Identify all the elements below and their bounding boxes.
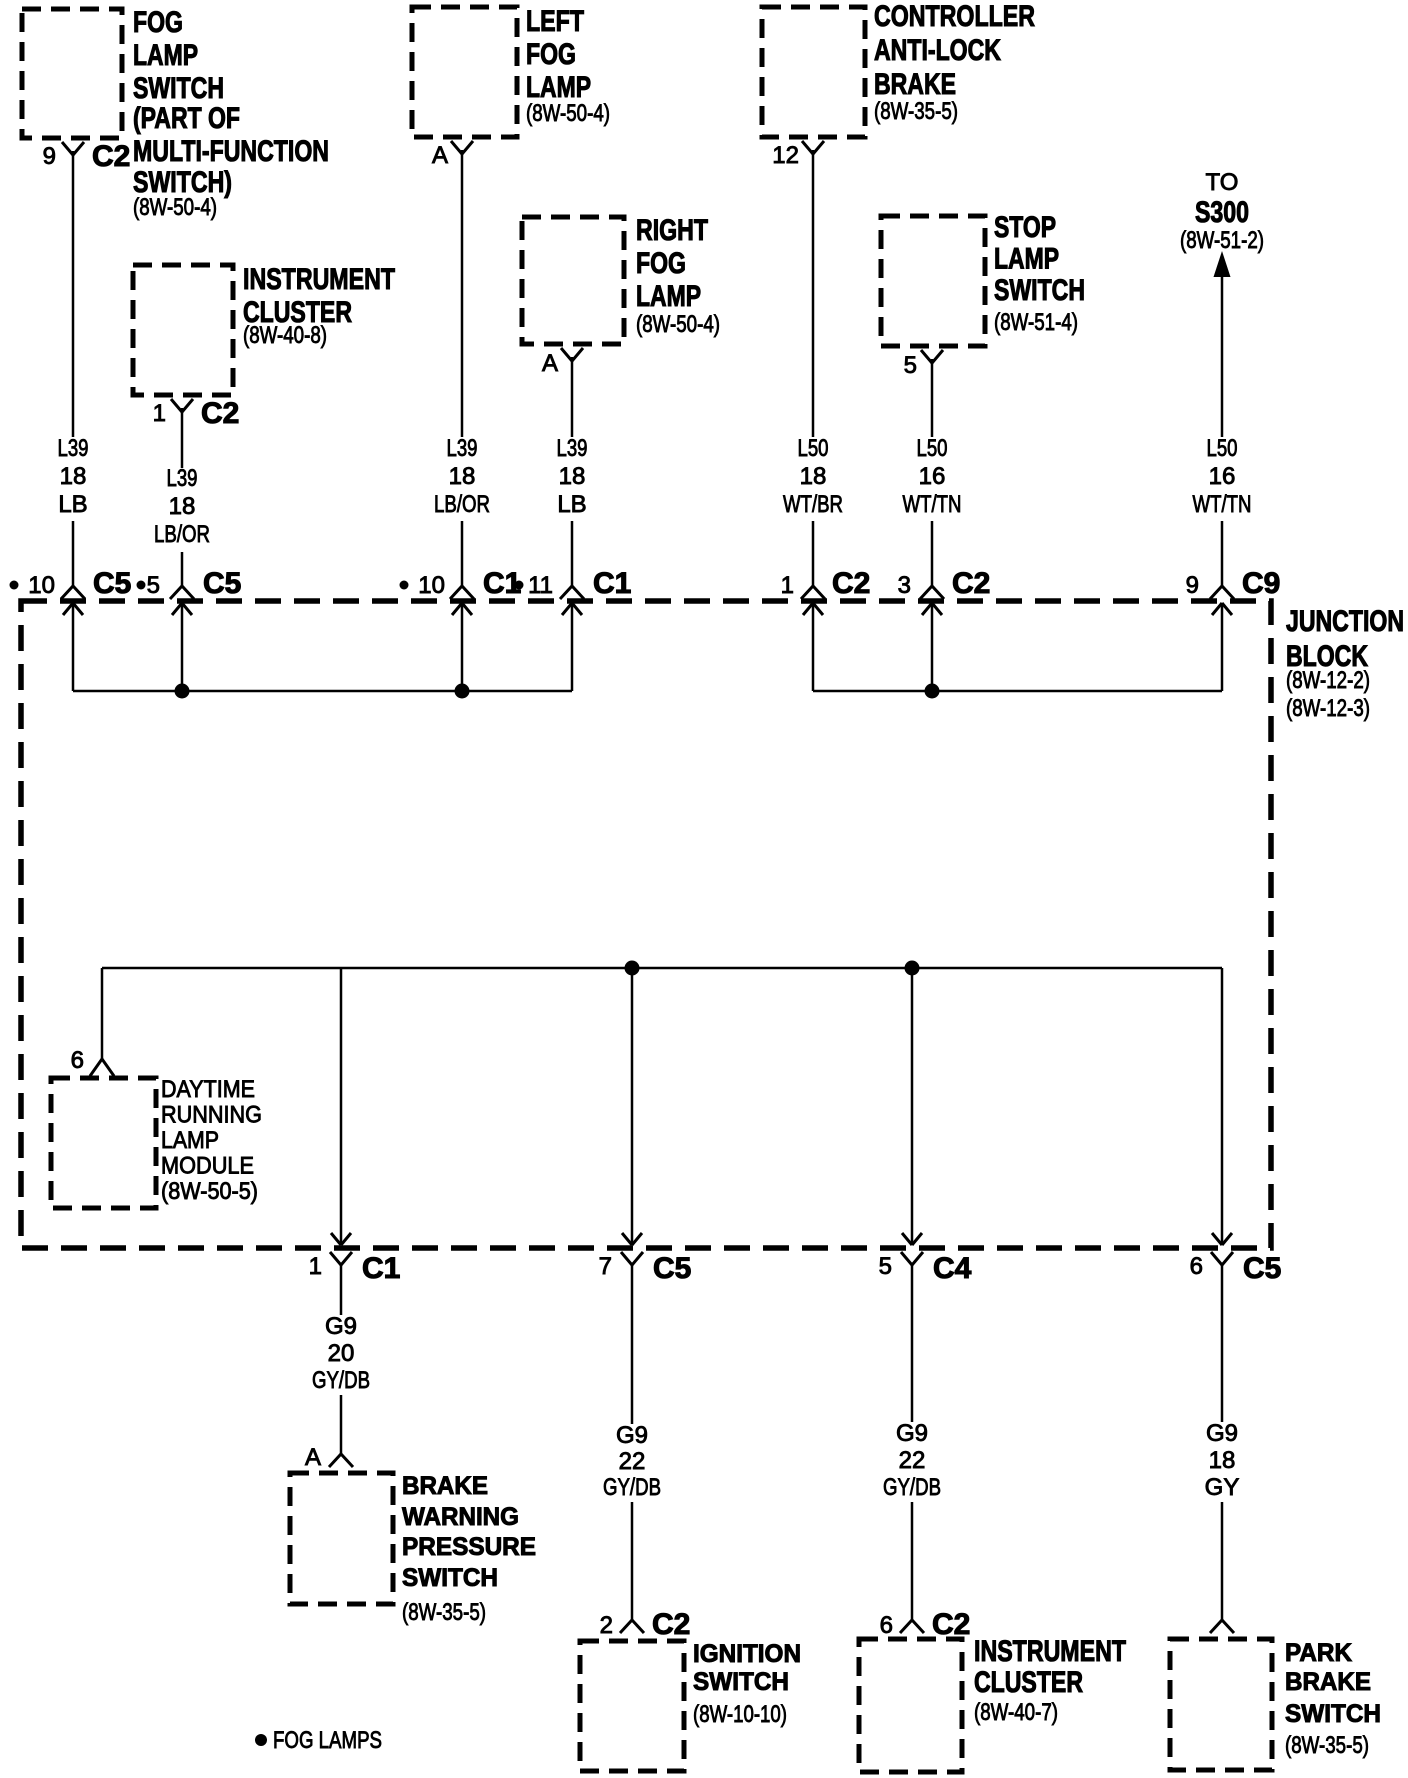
- svg-text:WT/TN: WT/TN: [903, 491, 962, 518]
- junction block cavity 11 connector C1 at x=572: [515, 567, 632, 615]
- svg-text:CLUSTER: CLUSTER: [974, 1666, 1083, 1699]
- junction block bottom cavity 7 connector C5 at x=632: [599, 1233, 692, 1285]
- svg-text:(8W-35-5): (8W-35-5): [1285, 1732, 1369, 1759]
- svg-text:18: 18: [169, 493, 196, 520]
- svg-text:L50: L50: [798, 435, 829, 462]
- instrument cluster (8W-40-7) box: [859, 1639, 962, 1772]
- daytime running lamp module label: [161, 1076, 262, 1205]
- svg-text:TO: TO: [1206, 169, 1239, 196]
- svg-text:LAMP: LAMP: [133, 39, 198, 72]
- svg-text:BRAKE: BRAKE: [1285, 1668, 1371, 1696]
- wire G9 22 GY/DB to instrument cluster: [911, 1265, 914, 1620]
- svg-text:22: 22: [899, 1447, 926, 1474]
- stop lamp switch label: [994, 211, 1085, 336]
- right fog lamp box: [522, 217, 624, 344]
- junction internal left bus: [73, 690, 572, 693]
- svg-text:6: 6: [880, 1612, 893, 1639]
- fog lamp switch pin 9 connector C2: [43, 140, 131, 173]
- svg-text:SWITCH: SWITCH: [133, 72, 224, 105]
- stop lamp switch pin 5: [904, 350, 943, 379]
- svg-text:SWITCH: SWITCH: [1285, 1700, 1381, 1728]
- junction block dashed outline: [21, 601, 1271, 1248]
- svg-text:G9: G9: [896, 1420, 928, 1447]
- junction block cavity 10 connector C5 at x=73: [10, 567, 132, 615]
- svg-text:LB/OR: LB/OR: [154, 521, 210, 548]
- svg-text:FOG LAMPS: FOG LAMPS: [273, 1727, 382, 1754]
- svg-text:3: 3: [898, 572, 911, 599]
- svg-text:IGNITION: IGNITION: [693, 1640, 801, 1668]
- svg-text:16: 16: [1209, 463, 1236, 490]
- right fog lamp pin A: [542, 348, 583, 377]
- junction internal wire drop (S300): [1221, 603, 1224, 691]
- junction internal wire drop (fog switch): [72, 603, 75, 691]
- to S300 label: [1180, 169, 1264, 254]
- svg-text:6: 6: [1190, 1253, 1203, 1280]
- svg-text:LB/OR: LB/OR: [434, 491, 490, 518]
- wire L50 18 WT/BR from controller: [812, 150, 815, 586]
- svg-text:PARK: PARK: [1285, 1639, 1352, 1667]
- svg-text:INSTRUMENT: INSTRUMENT: [974, 1635, 1126, 1668]
- svg-text:JUNCTION: JUNCTION: [1286, 605, 1404, 638]
- wire label L39 18 LB (right fog): [545, 435, 599, 521]
- svg-text:WARNING: WARNING: [402, 1503, 519, 1531]
- junction block cavity 9 connector C9 at x=1222: [1186, 567, 1281, 615]
- junction internal drop to C5 cavity 7: [631, 968, 634, 1245]
- svg-text:(8W-50-4): (8W-50-4): [636, 311, 720, 338]
- svg-text:L50: L50: [917, 435, 948, 462]
- svg-text:(8W-50-4): (8W-50-4): [526, 100, 610, 127]
- svg-text:5: 5: [879, 1253, 892, 1280]
- svg-text:GY/DB: GY/DB: [883, 1474, 941, 1501]
- svg-text:18: 18: [800, 463, 827, 490]
- svg-text:CONTROLLER: CONTROLLER: [874, 0, 1035, 33]
- svg-text:FOG: FOG: [526, 38, 576, 71]
- svg-text:(8W-12-3): (8W-12-3): [1286, 695, 1370, 722]
- svg-text:10: 10: [28, 572, 55, 599]
- svg-text:C1: C1: [593, 567, 631, 600]
- ignition switch pin 2 connector C2: [600, 1608, 691, 1641]
- ignition switch label: [693, 1640, 801, 1728]
- svg-text:C2: C2: [201, 397, 239, 430]
- svg-text:FOG: FOG: [636, 247, 686, 280]
- svg-text:WT/BR: WT/BR: [783, 491, 843, 518]
- junction block bottom cavity 6 connector C5 at x=1222: [1190, 1233, 1282, 1285]
- svg-text:C2: C2: [92, 140, 130, 173]
- svg-text:BRAKE: BRAKE: [402, 1472, 488, 1500]
- svg-text:L39: L39: [167, 465, 198, 492]
- svg-text:LAMP: LAMP: [161, 1127, 219, 1154]
- svg-text:L39: L39: [557, 435, 588, 462]
- daytime running lamp module box: [51, 1078, 156, 1208]
- instrument cluster label: [243, 263, 395, 349]
- junction internal wire drop (controller): [812, 603, 815, 691]
- junction node dot (left fog/left bus): [455, 684, 470, 699]
- junction internal right bus: [813, 690, 1222, 693]
- svg-text:L39: L39: [447, 435, 478, 462]
- fog lamps legend: [255, 1727, 382, 1754]
- svg-text:G9: G9: [616, 1422, 648, 1449]
- svg-text:5: 5: [147, 572, 160, 599]
- junction block cavity 10 connector C1 at x=462: [400, 567, 522, 615]
- svg-text:6: 6: [71, 1047, 84, 1074]
- wire label G9 22 GY/DB (cluster): [881, 1420, 943, 1502]
- svg-text:FOG: FOG: [133, 6, 183, 39]
- junction internal wire drop (cluster): [181, 603, 184, 691]
- wire L50 16 WT/TN from stop lamp switch: [931, 359, 934, 586]
- svg-text:11: 11: [528, 572, 553, 599]
- svg-text:C5: C5: [93, 567, 131, 600]
- svg-text:18: 18: [1209, 1447, 1236, 1474]
- svg-text:RIGHT: RIGHT: [636, 214, 708, 247]
- fog lamp switch box: [22, 9, 122, 138]
- S300 arrow head: [1214, 251, 1231, 277]
- junction internal drop to C1 cavity 1: [340, 968, 343, 1245]
- svg-text:STOP: STOP: [994, 211, 1056, 244]
- svg-text:L50: L50: [1207, 435, 1238, 462]
- wire label L39 18 LB (left): [46, 435, 100, 521]
- wire label L50 16 WT/TN (stop): [899, 435, 965, 521]
- svg-text:DAYTIME: DAYTIME: [161, 1076, 255, 1103]
- instrument cluster pin 1 connector C2: [153, 397, 240, 430]
- svg-text:MULTI-FUNCTION: MULTI-FUNCTION: [133, 135, 329, 168]
- junction node dot (lower bus / ignition drop): [625, 961, 640, 976]
- svg-text:G9: G9: [325, 1313, 357, 1340]
- svg-text:MODULE: MODULE: [161, 1153, 254, 1180]
- svg-text:LAMP: LAMP: [994, 243, 1059, 276]
- svg-text:2: 2: [600, 1612, 613, 1639]
- svg-text:C5: C5: [653, 1252, 691, 1285]
- svg-text:(PART OF: (PART OF: [133, 102, 240, 135]
- wire L39 18 LB/OR from instrument cluster: [181, 408, 184, 586]
- wire L39 18 LB from fog lamp switch: [72, 151, 75, 586]
- svg-text:20: 20: [328, 1340, 355, 1367]
- wire G9 22 GY/DB to ignition switch: [631, 1265, 634, 1620]
- svg-text:1: 1: [153, 400, 166, 427]
- svg-text:PRESSURE: PRESSURE: [402, 1533, 536, 1561]
- junction block cavity 1 connector C2 at x=813: [781, 567, 871, 615]
- left fog lamp box: [412, 7, 517, 137]
- right fog lamp label: [636, 214, 720, 338]
- svg-text:22: 22: [619, 1448, 646, 1475]
- svg-text:LB: LB: [557, 491, 586, 518]
- svg-text:5: 5: [904, 352, 917, 379]
- svg-text:LAMP: LAMP: [636, 280, 701, 313]
- svg-text:C1: C1: [362, 1252, 400, 1285]
- svg-text:C9: C9: [1242, 567, 1280, 600]
- svg-text:(8W-35-5): (8W-35-5): [874, 98, 958, 125]
- svg-text:18: 18: [559, 463, 586, 490]
- svg-text:9: 9: [1186, 572, 1199, 599]
- svg-text:(8W-50-4): (8W-50-4): [133, 194, 217, 221]
- svg-text:A: A: [305, 1444, 321, 1471]
- left fog lamp pin A: [432, 141, 473, 169]
- instrument cluster pin 6 connector C2: [880, 1608, 971, 1641]
- stop lamp switch box: [881, 216, 985, 346]
- brake warning pressure switch label: [402, 1472, 536, 1626]
- wire label L39 18 LB/OR (cluster): [151, 465, 213, 552]
- svg-text:S300: S300: [1195, 196, 1249, 229]
- svg-text:A: A: [432, 142, 448, 169]
- park brake switch label: [1285, 1639, 1381, 1759]
- wire L39 18 LB/OR from left fog lamp: [461, 150, 464, 586]
- wire L50 16 WT/TN to S300: [1221, 272, 1224, 586]
- daytime running lamp module pin 6 connector: [71, 1047, 114, 1076]
- svg-text:ANTI-LOCK: ANTI-LOCK: [874, 34, 1001, 67]
- svg-text:C2: C2: [652, 1608, 690, 1641]
- junction internal wire drop (left fog): [461, 603, 464, 691]
- controller anti-lock brake label: [874, 0, 1035, 125]
- svg-text:C5: C5: [203, 567, 241, 600]
- junction block bottom cavity 1 connector C1 at x=341: [309, 1233, 401, 1285]
- brake warning pressure switch box: [290, 1473, 393, 1604]
- wire label G9 20 GY/DB: [310, 1313, 372, 1395]
- svg-text:WT/TN: WT/TN: [1193, 491, 1252, 518]
- park brake switch box: [1170, 1639, 1272, 1770]
- left fog lamp label: [526, 5, 610, 127]
- svg-text:(8W-10-10): (8W-10-10): [693, 1701, 787, 1728]
- ignition switch box: [580, 1641, 684, 1771]
- svg-text:LEFT: LEFT: [526, 5, 584, 38]
- svg-text:18: 18: [449, 463, 476, 490]
- svg-text:BRAKE: BRAKE: [874, 68, 956, 101]
- svg-text:INSTRUMENT: INSTRUMENT: [243, 263, 395, 296]
- junction internal wire drop (stop lamp): [931, 603, 934, 691]
- svg-text:C2: C2: [932, 1608, 970, 1641]
- svg-text:18: 18: [60, 463, 87, 490]
- wire label L50 18 WT/BR: [780, 435, 846, 521]
- svg-text:1: 1: [781, 572, 794, 599]
- wire G9 20 GY/DB to brake warning pressure switch: [340, 1265, 343, 1454]
- wire label G9 18 GY (park brake): [1195, 1420, 1249, 1502]
- svg-text:9: 9: [43, 143, 56, 170]
- svg-text:10: 10: [418, 572, 445, 599]
- instrument cluster bottom label: [974, 1635, 1126, 1726]
- wire label L39 18 LB/OR (left fog): [431, 435, 493, 521]
- svg-text:GY: GY: [1205, 1474, 1240, 1501]
- svg-text:G9: G9: [1206, 1420, 1238, 1447]
- svg-text:SWITCH: SWITCH: [402, 1564, 498, 1592]
- junction block label: [1286, 605, 1404, 722]
- svg-text:GY/DB: GY/DB: [312, 1367, 370, 1394]
- controller anti-lock brake box: [762, 7, 865, 137]
- junction block cavity 3 connector C2 at x=932: [898, 567, 991, 615]
- svg-text:(8W-40-8): (8W-40-8): [243, 322, 327, 349]
- svg-text:(8W-40-7): (8W-40-7): [974, 1699, 1058, 1726]
- svg-text:16: 16: [919, 463, 946, 490]
- wire label L50 16 WT/TN (S300): [1189, 435, 1255, 521]
- svg-text:LB: LB: [58, 491, 87, 518]
- svg-text:(8W-51-2): (8W-51-2): [1180, 227, 1264, 254]
- instrument cluster (8W-40-8) box: [133, 265, 233, 395]
- park brake switch pin connector: [1210, 1620, 1234, 1633]
- svg-text:L39: L39: [58, 435, 89, 462]
- junction internal drop to C4 cavity 5: [911, 968, 914, 1245]
- svg-text:A: A: [542, 350, 558, 377]
- svg-text:(8W-12-2): (8W-12-2): [1286, 667, 1370, 694]
- svg-text:7: 7: [599, 1253, 612, 1280]
- fog lamp switch label: [133, 6, 329, 221]
- svg-text:(8W-35-5): (8W-35-5): [402, 1599, 486, 1626]
- junction internal wire drop (right fog): [571, 603, 574, 691]
- junction node dot (cluster/left bus): [175, 684, 190, 699]
- svg-text:SWITCH: SWITCH: [693, 1668, 789, 1696]
- controller anti-lock brake pin 12: [772, 141, 824, 169]
- svg-text:C2: C2: [832, 567, 870, 600]
- svg-text:1: 1: [309, 1253, 322, 1280]
- svg-text:GY/DB: GY/DB: [603, 1474, 661, 1501]
- svg-text:RUNNING: RUNNING: [161, 1102, 262, 1129]
- svg-text:C5: C5: [1243, 1252, 1281, 1285]
- junction internal drop to C5 cavity 6: [1221, 968, 1224, 1245]
- svg-text:SWITCH: SWITCH: [994, 274, 1085, 307]
- svg-text:12: 12: [772, 142, 799, 169]
- junction internal drop to DRL module: [101, 968, 104, 1059]
- junction internal lower bus: [102, 967, 1222, 970]
- brake warning pressure switch pin A connector: [305, 1444, 353, 1471]
- wire G9 18 GY to park brake switch: [1221, 1265, 1224, 1620]
- junction block cavity 5 connector C5 at x=182: [137, 567, 242, 615]
- wire L39 18 LB from right fog lamp: [571, 357, 574, 586]
- svg-text:C4: C4: [933, 1252, 972, 1285]
- svg-text:(8W-50-5): (8W-50-5): [161, 1178, 258, 1205]
- svg-text:C2: C2: [952, 567, 990, 600]
- junction node dot (stop lamp/right bus): [925, 684, 940, 699]
- junction block bottom cavity 5 connector C4 at x=912: [879, 1233, 972, 1285]
- junction node dot (lower bus / cluster drop): [905, 961, 920, 976]
- svg-text:(8W-51-4): (8W-51-4): [994, 309, 1078, 336]
- wire label G9 22 GY/DB (ignition): [601, 1422, 663, 1502]
